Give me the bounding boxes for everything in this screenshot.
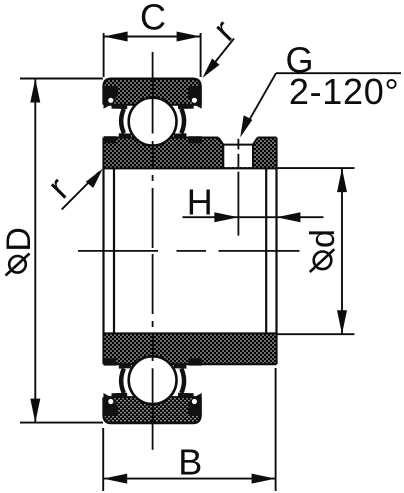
inner ring upper (cross-hatched section with set screw hole) [104,136,277,168]
leader arrow G [240,115,252,137]
set screw hole outline (chamfer and walls) [218,138,257,169]
svg-text:C: C [140,0,166,38]
leader arrow r left [86,169,103,188]
dimension C arrow left [104,32,128,42]
outer ring upper outline [104,79,201,105]
label r top-right [205,11,242,48]
svg-text:H: H [187,182,213,223]
ball lower [129,356,177,404]
seal lower-right [174,359,202,416]
outer ring lower (cross-hatched section) [104,397,201,423]
dimension B extension line left [102,428,104,491]
label r left [39,169,76,206]
seal upper-left [104,86,132,143]
leader line G diagonal [243,73,276,131]
dimension phid extension line bottom [278,333,355,335]
svg-text:2-120°: 2-120° [289,71,400,112]
diameter symbol of phiD [9,256,26,273]
dimension H line [183,216,324,218]
inner ring lower outline [104,334,277,365]
dimension phiD arrow bottom [30,399,40,423]
seal lower-left [104,359,132,416]
svg-text:D: D [0,227,38,252]
seal upper-right [174,86,202,143]
horizontal centerline [78,250,300,252]
label D of phiD (rotated) [0,227,38,252]
bore left face line [102,168,104,333]
ball upper [129,98,177,146]
dimension C line [104,36,201,38]
outer ring upper (cross-hatched section) [104,79,201,105]
dimension phiD extension line bottom [20,422,103,424]
dimension phid line [341,168,343,334]
dimension phiD line [34,79,36,423]
dimension H arrow left [214,212,238,222]
svg-text:d: d [304,229,342,248]
dimension phiD extension line top [20,78,103,80]
leader line r top-right [206,39,234,74]
dimension C extension line left [103,33,105,77]
vertical centerline through balls [152,52,154,450]
outer ring lower outline [104,397,201,423]
bore right chamfer line [265,168,267,333]
dimension C extension line right [200,33,202,77]
label d of phid (rotated) [304,229,342,248]
dimension H arrow right [276,212,300,222]
dimension B arrow right [252,474,276,484]
dimension C arrow right [177,32,201,42]
bore right face line [275,168,277,333]
diameter symbol of phid [314,251,332,269]
leader arrow r top-right [203,59,220,78]
inner ring upper outline [104,138,277,169]
inner ring lower (cross-hatched section) [104,334,277,365]
bore left chamfer line [113,168,115,333]
dimension B line [103,478,275,480]
leader line G horizontal [276,72,401,74]
dimension B arrow left [103,474,127,484]
dimension phid arrow top [337,168,347,192]
dimension phid extension line top [278,167,355,169]
svg-text:B: B [178,441,202,482]
set screw axis centerline [237,139,239,236]
dimension B extension line right [275,368,277,491]
dimension phiD arrow top [30,79,40,103]
dimension phid arrow bottom [337,310,347,334]
leader line r left [62,172,99,209]
